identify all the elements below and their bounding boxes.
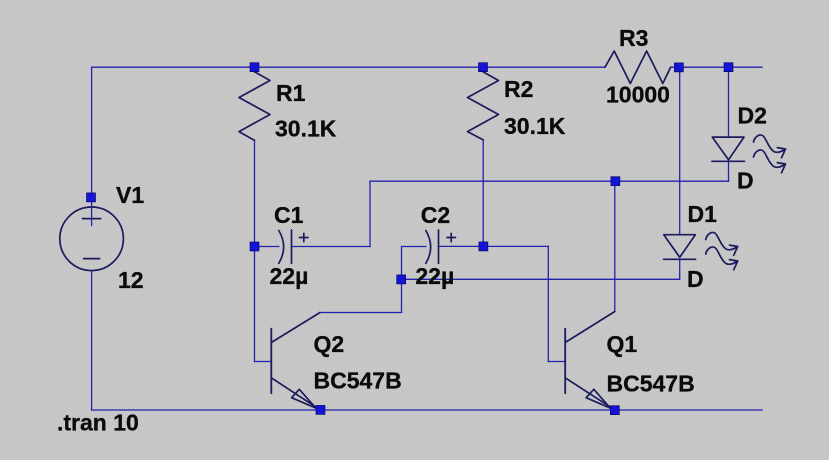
svg-text:BC547B: BC547B [314, 368, 402, 394]
transistor Q2 emitter arrow [292, 389, 316, 408]
wire D2 anode drop [728, 67, 730, 137]
svg-text:D: D [687, 266, 704, 292]
svg-text:22µ: 22µ [270, 263, 309, 289]
voltage source V1 circle [60, 207, 124, 271]
transistor Q2 base bar [270, 329, 272, 394]
svg-text:22µ: 22µ [415, 263, 454, 289]
node D2 anode tap [724, 63, 733, 72]
V1 minus sign [84, 258, 100, 260]
wire C2 left lead [402, 246, 427, 248]
svg-text:BC547B: BC547B [607, 371, 695, 397]
svg-text:Q1: Q1 [607, 331, 638, 357]
LED D1 cathode bar [664, 258, 696, 260]
LED D2 triangle [712, 137, 744, 160]
wire Q1 base lead [548, 361, 565, 363]
svg-text:.tran 10: .tran 10 [57, 410, 139, 436]
V1 plus sign [83, 218, 101, 220]
svg-text:C2: C2 [421, 202, 450, 228]
transistor Q2 emitter diagonal [271, 378, 319, 410]
LED D2 light arrow lower [754, 150, 786, 173]
node Q2 emitter [316, 405, 325, 414]
LED D1 light arrow lower [706, 247, 738, 270]
wire top rail V1 to R3 [92, 66, 605, 68]
transistor Q2 collector diagonal [271, 313, 320, 343]
capacitor C1 straight plate [291, 230, 293, 263]
node C2 left / Q2 collector [397, 275, 406, 284]
wire C1 left lead [255, 246, 279, 248]
wire C2 right lead to Q1 riser [439, 245, 549, 247]
svg-text:10000: 10000 [606, 82, 670, 108]
capacitor C2 plus [447, 233, 456, 241]
node R3 right / D1 branch [674, 63, 683, 72]
svg-text:30.1K: 30.1K [275, 116, 337, 142]
wire bottom rail [92, 409, 762, 411]
transistor Q1 collector diagonal [565, 312, 615, 343]
svg-text:D2: D2 [738, 103, 767, 129]
node mid rail / Q1 collector [611, 177, 620, 186]
LED D1 triangle [664, 235, 696, 258]
capacitor C1 curved plate [279, 231, 284, 264]
wire Q1 collector riser [614, 181, 616, 311]
wire C1 right lead [292, 246, 371, 248]
wire D1 anode riser [679, 67, 681, 235]
LED D2 cathode bar [712, 160, 745, 162]
LED D1 light arrow upper [706, 232, 738, 255]
wire D2 cathode drop [728, 161, 730, 181]
node C2 right / R2 bottom [479, 242, 488, 251]
svg-text:V1: V1 [116, 182, 144, 208]
transistor Q1 base bar [564, 329, 566, 394]
resistor R3 zigzag [605, 51, 671, 84]
node R1 top [250, 63, 259, 72]
wire D1 cathode drop [679, 259, 681, 279]
wire Q1 base riser [547, 246, 549, 361]
wire riser C1 to mid rail [369, 181, 371, 246]
node V1 top [87, 193, 96, 202]
wire V1 top riser [91, 67, 93, 197]
node Q1 emitter [610, 406, 619, 415]
capacitor C2 straight plate [438, 230, 440, 263]
resistor R2 zigzag [468, 72, 499, 140]
wire R1 bottom to Q2 base corner [254, 140, 256, 361]
wire top rail R3 to right stub [671, 66, 762, 68]
svg-text:12: 12 [118, 267, 144, 293]
svg-text:C1: C1 [274, 202, 304, 228]
svg-text:R1: R1 [276, 80, 306, 106]
transistor Q1 emitter diagonal [565, 378, 614, 410]
svg-text:D: D [737, 168, 754, 194]
wire R2 bottom [482, 140, 484, 247]
svg-text:R2: R2 [504, 76, 533, 102]
svg-text:30.1K: 30.1K [504, 113, 566, 139]
transistor Q1 emitter arrow [586, 389, 610, 408]
node C1 left [250, 242, 259, 251]
wire C2 left drop [401, 247, 403, 313]
svg-text:D1: D1 [688, 201, 718, 227]
wire mid rail y181 [370, 180, 729, 182]
wire Q2 base lead [255, 361, 272, 363]
wire V1 into circle [91, 197, 93, 226]
wire rail Q2 collector to D1 cathode [402, 278, 680, 280]
LED D2 light arrow upper [754, 135, 786, 158]
wire V1 bottom [91, 271, 93, 411]
svg-text:R3: R3 [619, 25, 648, 51]
wire Q2 collector horizontal [320, 312, 402, 314]
svg-text:Q2: Q2 [314, 331, 345, 357]
resistor R1 zigzag [239, 72, 270, 140]
capacitor C1 plus [300, 233, 309, 241]
capacitor C2 curved plate [426, 231, 431, 264]
node R2 top [479, 63, 488, 72]
